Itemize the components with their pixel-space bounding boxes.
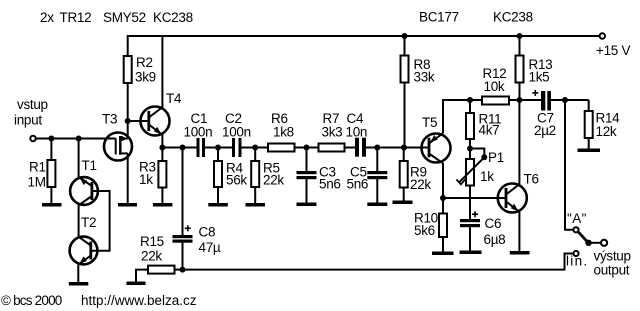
svg-text:1M: 1M <box>28 175 46 190</box>
ground C5 <box>367 203 387 207</box>
ground R3 <box>153 203 173 207</box>
node C5 tap <box>374 145 380 151</box>
wire T6 collector up to C7 node <box>518 100 520 184</box>
node R1 tap <box>48 136 54 142</box>
svg-text:10k: 10k <box>484 79 505 94</box>
plus C8 <box>185 227 191 229</box>
svg-text:T1: T1 <box>82 158 97 173</box>
svg-text:"A": "A" <box>567 211 587 226</box>
svg-text:4k7: 4k7 <box>479 123 500 138</box>
terminal +15V <box>600 33 605 38</box>
wire switch feed from C7 node <box>565 100 573 230</box>
svg-text:R1: R1 <box>29 160 46 175</box>
ground R10 <box>432 252 454 256</box>
svg-text:3k3: 3k3 <box>322 125 343 140</box>
svg-text:lin.: lin. <box>566 254 588 269</box>
wire <box>295 147 319 149</box>
svg-text:P1: P1 <box>488 150 504 165</box>
wire C8 branch <box>182 148 184 236</box>
node C8 / R15 / feedback <box>180 267 186 273</box>
wire T6 emitter down <box>518 212 520 252</box>
svg-text:R2: R2 <box>136 55 153 70</box>
svg-text:vstup: vstup <box>17 97 48 112</box>
wire top supply rail <box>128 36 600 56</box>
svg-text:47µ: 47µ <box>199 240 221 255</box>
svg-text:T2: T2 <box>81 215 96 230</box>
transistor T3 (FET) <box>104 133 132 161</box>
svg-text:12k: 12k <box>596 124 617 139</box>
wire P1 bottom to C6 <box>469 186 471 220</box>
svg-text:SMY52: SMY52 <box>103 10 146 25</box>
resistor R7 <box>319 144 345 152</box>
svg-text:output: output <box>594 263 630 278</box>
node C3 tap <box>304 145 310 151</box>
terminal switch contact A <box>573 227 578 232</box>
wire wiper connection <box>470 149 484 158</box>
svg-text:33k: 33k <box>414 70 435 85</box>
svg-text:+15 V: +15 V <box>596 43 630 58</box>
ground R4 <box>208 203 228 207</box>
node R11 tap on R12 line <box>467 97 473 103</box>
svg-text:C6: C6 <box>485 216 502 231</box>
wire <box>345 147 356 149</box>
ground R1 <box>42 203 62 207</box>
node T5 collector / R10 / T6 base <box>440 195 446 201</box>
node T4 emitter / R3 <box>159 145 165 151</box>
wire T1 base to T2 base <box>91 191 110 251</box>
wire main signal rail <box>162 147 196 149</box>
wire R12 to C7 node <box>509 99 541 101</box>
capacitor C2 <box>232 138 235 157</box>
wire lin contact to feedback line <box>183 254 574 270</box>
svg-text:100n: 100n <box>222 125 251 140</box>
svg-text:3k9: 3k9 <box>135 70 156 85</box>
wire T1 collector to T2 collector <box>78 205 80 237</box>
svg-text:R15: R15 <box>140 234 164 249</box>
svg-text:5n6: 5n6 <box>347 177 369 192</box>
ground R5 <box>246 203 266 207</box>
ground R14 <box>578 149 601 153</box>
node T3 drain / T4 base junction <box>125 118 131 124</box>
node R8 / R9 / T5 base junction <box>401 145 407 151</box>
wire T2 emitter down <box>77 264 79 282</box>
wire R2 bottom to T3 drain / T4 base node <box>127 83 129 121</box>
svg-text:2x: 2x <box>40 10 54 25</box>
node R4 tap <box>215 145 221 151</box>
resistor R5 <box>254 148 256 162</box>
ground R9 <box>393 201 413 205</box>
svg-text:6µ8: 6µ8 <box>484 232 506 247</box>
wire T4 emitter down <box>161 135 163 148</box>
ground T6 <box>510 251 530 255</box>
svg-text:BC177: BC177 <box>419 10 459 25</box>
ground T2 <box>69 282 89 286</box>
node R8 top rail tap <box>402 33 408 39</box>
resistor R10 <box>442 198 444 214</box>
wire input line to T3 gate <box>36 138 116 140</box>
terminal vstup input <box>30 136 35 141</box>
svg-text:T6: T6 <box>524 172 539 187</box>
capacitor C8 <box>173 235 193 238</box>
wire C7 right <box>551 99 589 101</box>
svg-text:© bcs 2000: © bcs 2000 <box>1 293 62 308</box>
wire to output terminal <box>589 242 602 244</box>
wire <box>242 147 269 149</box>
ground C3 <box>297 203 317 207</box>
node wiper end <box>481 154 487 160</box>
capacitor C4 <box>355 138 359 157</box>
capacitor C6 <box>460 219 480 222</box>
node R13 / R12 / C7 / T6 collector <box>517 97 523 103</box>
svg-text:T3: T3 <box>102 112 117 127</box>
svg-text:1k: 1k <box>480 169 494 184</box>
node R11 bottom / P1 wiper <box>467 146 473 152</box>
resistor R1 <box>50 139 52 161</box>
transistor T4 <box>141 107 170 136</box>
terminal output <box>601 240 607 246</box>
wire T5 emitter up to R12 line <box>443 100 482 133</box>
svg-text:KC238: KC238 <box>493 10 533 25</box>
svg-text:1k5: 1k5 <box>529 70 550 85</box>
wire T6 base line <box>443 197 506 199</box>
capacitor C3 <box>306 148 308 172</box>
svg-text:10n: 10n <box>346 125 368 140</box>
svg-text:výstup: výstup <box>594 249 631 264</box>
wire <box>205 147 232 149</box>
plus C6 <box>472 213 478 215</box>
ground C6 <box>460 251 482 255</box>
wire T1 emitter from input node <box>78 139 80 178</box>
svg-text:TR12: TR12 <box>60 10 92 25</box>
plus C7 <box>532 92 538 94</box>
resistor R6 <box>268 144 295 152</box>
svg-text:22k: 22k <box>263 173 284 188</box>
wire T4 collector to rail <box>161 36 163 108</box>
ground T3 <box>118 203 137 207</box>
resistor R9 <box>403 148 405 162</box>
resistor R14 <box>588 100 590 111</box>
svg-text:C8: C8 <box>199 225 216 240</box>
capacitor C5 <box>376 148 378 172</box>
svg-text:22k: 22k <box>141 249 162 264</box>
resistor R3 <box>161 148 163 162</box>
svg-text:KC238: KC238 <box>153 10 193 25</box>
transistor T2 <box>70 237 98 265</box>
resistor R11 <box>469 100 471 113</box>
ground R15 <box>127 282 146 286</box>
transistor T5 (PNP BC177) <box>422 133 451 163</box>
capacitor C7 <box>541 91 545 111</box>
svg-text:2µ2: 2µ2 <box>534 123 556 138</box>
node switch pole <box>585 240 591 246</box>
switch arm <box>578 232 586 241</box>
svg-text:http://www.belza.cz: http://www.belza.cz <box>81 293 197 308</box>
svg-text:T4: T4 <box>166 91 182 106</box>
node C7 / R14 / switch line <box>562 97 568 103</box>
svg-text:1k: 1k <box>139 172 153 187</box>
svg-text:1k8: 1k8 <box>273 125 294 140</box>
node T1 tap <box>76 136 82 142</box>
resistor R2 <box>124 56 132 83</box>
svg-text:T5: T5 <box>422 115 437 130</box>
transistor T1 <box>70 177 98 205</box>
polarity plus marks <box>185 90 539 231</box>
potentiometer P1 <box>469 149 471 160</box>
svg-text:56k: 56k <box>226 173 247 188</box>
capacitor C1 <box>197 138 200 157</box>
wire T3 source down <box>127 153 129 203</box>
node R13 top rail tap <box>517 33 523 39</box>
wire T5 collector down <box>442 163 444 198</box>
svg-text:100n: 100n <box>184 125 213 140</box>
svg-text:5k6: 5k6 <box>414 223 435 238</box>
resistor R13 <box>519 36 521 56</box>
wire <box>366 147 429 149</box>
svg-text:5n6: 5n6 <box>319 177 341 192</box>
terminal switch contact lin <box>573 251 578 256</box>
resistor R8 <box>404 36 406 56</box>
node R5 tap <box>252 145 258 151</box>
transistor T6 <box>498 184 527 213</box>
svg-text:22k: 22k <box>410 177 431 192</box>
wire T4 base <box>128 120 149 122</box>
resistor R12 <box>482 97 509 105</box>
resistor R4 <box>217 148 219 162</box>
node C8 tap <box>180 145 186 151</box>
wire T3 drain up <box>127 121 129 139</box>
svg-text:input: input <box>14 113 42 128</box>
resistor R15 <box>148 266 175 274</box>
